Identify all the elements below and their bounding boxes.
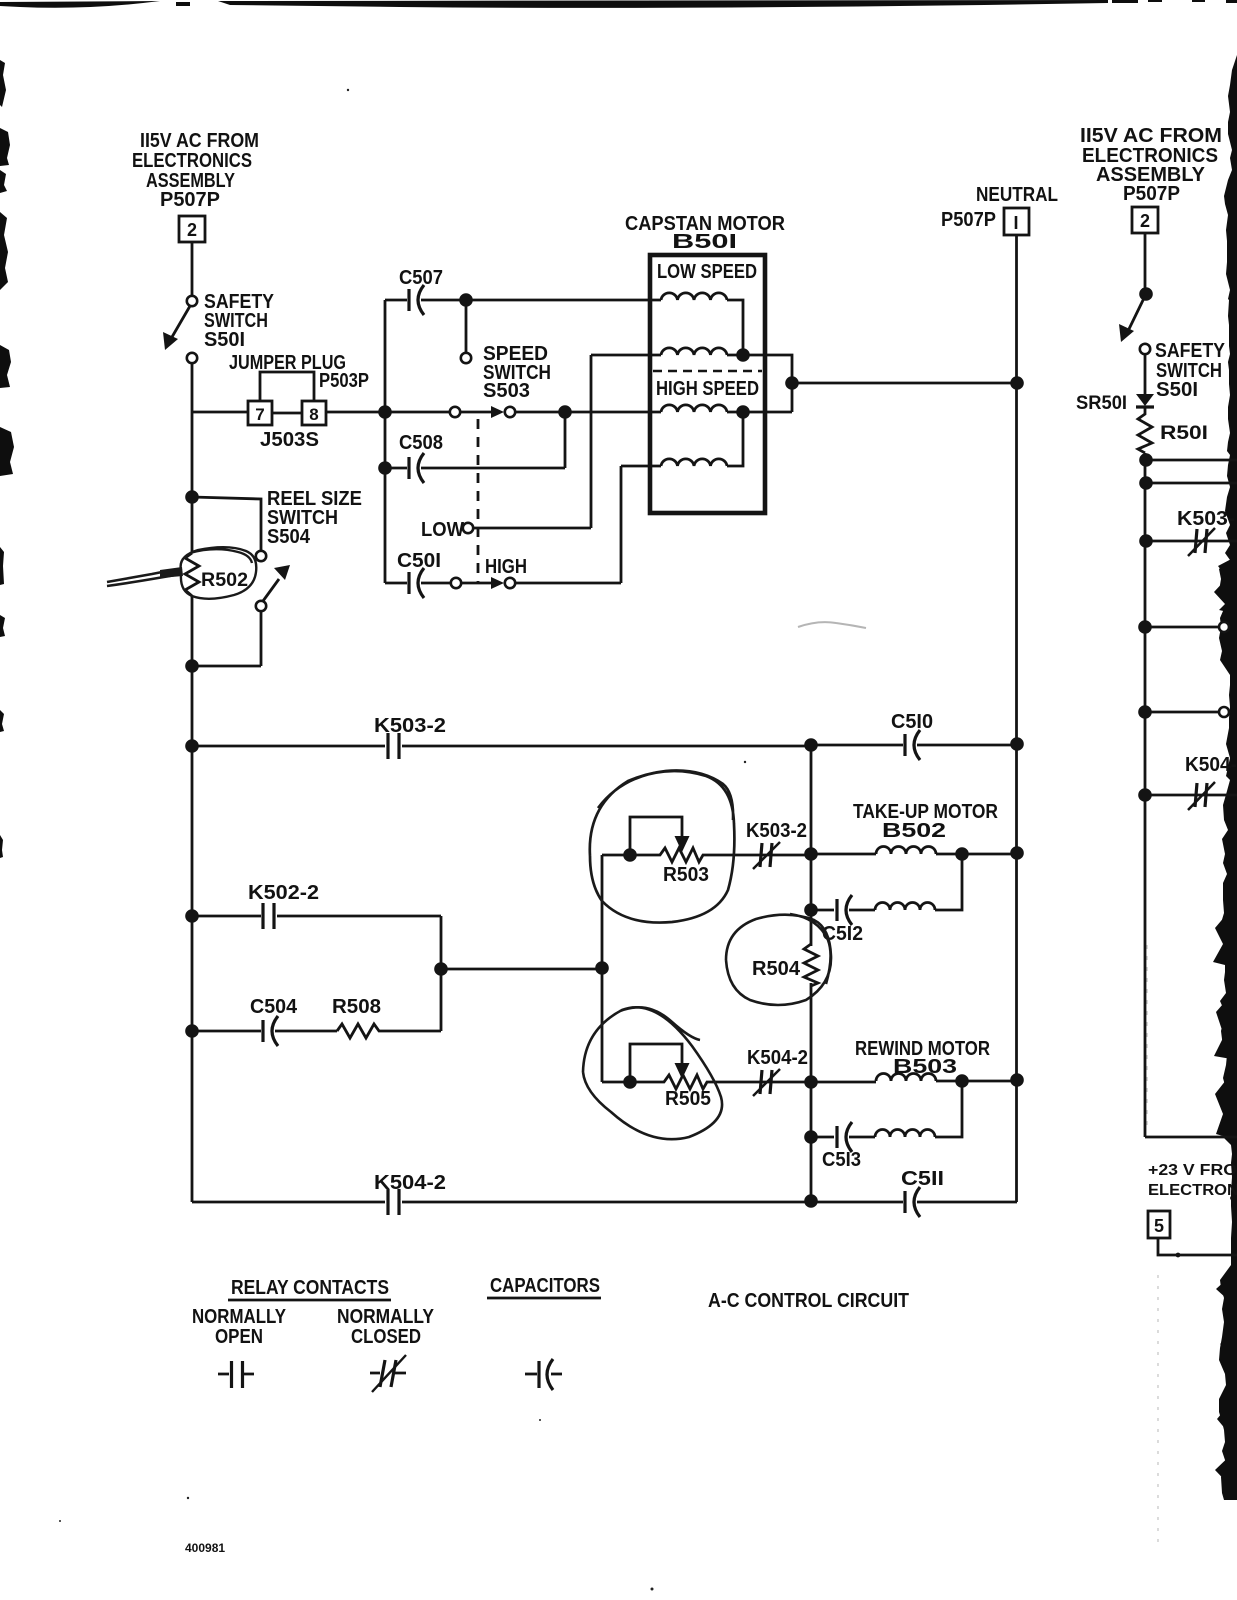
svg-text:R503: R503	[663, 864, 709, 886]
resistor R502	[185, 553, 248, 596]
node LOW contact	[421, 355, 661, 541]
svg-text:R50I: R50I	[1160, 423, 1208, 444]
node: K502-2 row left	[185, 909, 199, 923]
node: K502-2/C504 junction	[434, 962, 448, 976]
switch contact right 2	[1138, 705, 1152, 719]
svg-text:RELAY CONTACTS: RELAY CONTACTS	[231, 1277, 389, 1299]
svg-text:K503-: K503-	[1177, 508, 1235, 530]
scan artifact: faint pencil smudge	[798, 622, 866, 628]
svg-text:II5V AC FROM: II5V AC FROM	[140, 130, 259, 152]
potentiometer R505	[623, 1044, 808, 1110]
jumper plug P503P J503S	[229, 352, 369, 451]
capacitor C512	[811, 854, 962, 945]
resistor R501	[1138, 407, 1208, 453]
svg-text:P507P: P507P	[160, 189, 220, 211]
svg-text:LOW SPEED: LOW SPEED	[657, 261, 757, 283]
relay contact K503- (right, normally closed)	[1139, 508, 1237, 556]
take-up motor B502	[811, 801, 1017, 854]
svg-text:ELECTRONICS: ELECTRONICS	[132, 150, 252, 172]
svg-text:S504: S504	[267, 526, 311, 548]
svg-text:K503-2: K503-2	[746, 820, 807, 842]
node: safety switch pivot	[1139, 287, 1153, 301]
svg-text:HIGH SPEED: HIGH SPEED	[656, 378, 759, 400]
scan artifact: left edge blobs	[0, 60, 14, 858]
node: C510 right on neutral bus	[1010, 737, 1024, 751]
wire: main row to jumper and speed switch	[192, 412, 450, 413]
svg-text:400981: 400981	[185, 1541, 225, 1555]
svg-text:HIGH: HIGH	[485, 556, 527, 578]
scan artifact: right edge strip	[1213, 55, 1237, 1500]
winding 1 (low speed)	[661, 293, 727, 300]
svg-text:R505: R505	[665, 1088, 711, 1110]
wire: speed switch to motor high-speed winding	[515, 411, 661, 414]
relay contact K504-2 (normally closed, motor branch)	[747, 1047, 808, 1096]
legend: CAPACITORS	[487, 1275, 601, 1298]
svg-text:K504-2: K504-2	[747, 1047, 808, 1069]
left bus wire	[191, 412, 194, 553]
svg-text:C5I3: C5I3	[822, 1149, 861, 1171]
node: winding junction upper	[736, 348, 750, 362]
node: B502 right junction	[955, 847, 969, 861]
capacitor C501	[385, 550, 451, 598]
svg-text:C504: C504	[250, 996, 298, 1018]
wire: C507 junction to capstan LOW SPEED winding 1	[466, 299, 661, 302]
wire: branch vertical C507/C508/C501	[384, 300, 387, 583]
svg-text:ELECTRON: ELECTRON	[1148, 1182, 1237, 1199]
node: B502 on neutral bus	[1010, 846, 1024, 860]
hand-drawn loop around R505	[583, 1007, 722, 1139]
capacitor C511	[901, 1168, 1017, 1217]
node: C504 row left	[185, 1024, 199, 1038]
svg-text:S50I: S50I	[1156, 379, 1198, 401]
wire: S503 mechanical link (dashed)	[477, 419, 480, 583]
svg-text:C5II: C5II	[901, 1168, 944, 1190]
svg-text:P507P: P507P	[941, 209, 996, 231]
svg-text:C5I0: C5I0	[891, 711, 933, 733]
svg-text:CAPACITORS: CAPACITORS	[490, 1275, 600, 1297]
legend: RELAY CONTACTS	[192, 1277, 435, 1348]
node: B503 right junction	[955, 1074, 969, 1088]
capacitor C508	[385, 412, 565, 483]
svg-text:K502-2: K502-2	[248, 882, 319, 904]
svg-text:OPEN: OPEN	[215, 1326, 263, 1348]
node: junction main row / C507-C508 branch	[378, 405, 392, 419]
svg-text:S50I: S50I	[204, 329, 245, 351]
wire: pin2 to safety switch	[191, 242, 194, 296]
svg-text:B502: B502	[882, 820, 946, 842]
svg-text:R502: R502	[201, 570, 248, 591]
wire: pots branch vertical	[601, 855, 604, 1082]
node: K503-2 row left	[185, 739, 199, 753]
svg-text:5: 5	[1154, 1216, 1164, 1236]
winding 2 (low speed)	[661, 348, 727, 355]
svg-text:K504-2: K504-2	[374, 1172, 446, 1194]
reel size switch S504	[192, 488, 362, 666]
node: C512 row	[804, 903, 818, 917]
scan artifact: top torn edge	[0, 0, 1237, 8]
connector pin 1 (P507P neutral)	[941, 208, 1029, 235]
node: K503-2 row / central vertical	[804, 738, 818, 752]
hand-drawn loop around R504	[726, 914, 831, 1005]
node: take-up motor row / central vertical	[804, 847, 818, 861]
wire: HIGH contact to winding 4	[515, 466, 661, 583]
capacitor C510	[811, 711, 1017, 760]
speed switch S503 upper throw contact	[465, 306, 468, 353]
svg-text:P503P: P503P	[319, 370, 369, 392]
svg-text:+23 V FRO: +23 V FRO	[1148, 1162, 1237, 1179]
hand-drawn loop around R503	[590, 771, 735, 923]
svg-text:J503S: J503S	[260, 429, 319, 451]
connector pin 2 (right P507P)	[1132, 207, 1158, 233]
node: rewind motor row / central vertical	[804, 1075, 818, 1089]
svg-text:2: 2	[187, 220, 197, 240]
capacitor C513	[811, 1081, 962, 1171]
svg-text:SR50I: SR50I	[1076, 393, 1127, 414]
svg-text:I: I	[1013, 213, 1018, 233]
scan artifact: fold crease lines	[1146, 945, 1148, 1132]
svg-text:8: 8	[309, 405, 318, 424]
svg-text:R508: R508	[332, 996, 381, 1018]
capstan motor B501	[625, 213, 785, 513]
hand-drawn loop around R502	[181, 547, 257, 599]
node: reel size switch upper tap	[185, 490, 199, 504]
safety switch S501 (left)	[163, 291, 275, 363]
switch contact right 1	[1138, 620, 1152, 634]
node: junction C508 left	[378, 461, 392, 475]
rewind motor B503	[811, 1038, 1017, 1082]
svg-text:B50I: B50I	[672, 231, 737, 253]
node: B503 on neutral bus	[1010, 1073, 1024, 1087]
legend symbol: capacitor	[525, 1359, 562, 1390]
svg-text:P507P: P507P	[1123, 182, 1180, 205]
relay contact K504-2 (normally open, bottom)	[374, 1172, 903, 1215]
svg-text:C50I: C50I	[397, 550, 441, 572]
hand-drawn pointer line to R502	[107, 569, 180, 582]
bottom row wire	[192, 1201, 385, 1204]
svg-text:C508: C508	[399, 432, 443, 454]
node: neutral tap	[1010, 376, 1024, 390]
node: reel size switch lower tap	[185, 659, 199, 673]
node: C513 row	[804, 1130, 818, 1144]
relay contact K502-2 (normally open)	[192, 882, 441, 1031]
svg-text:A-C CONTROL CIRCUIT: A-C CONTROL CIRCUIT	[708, 1290, 909, 1312]
svg-text:2: 2	[1140, 211, 1150, 231]
svg-text:S503: S503	[483, 380, 530, 402]
winding 3 (high speed)	[661, 405, 727, 412]
svg-text:NORMALLY: NORMALLY	[337, 1306, 435, 1328]
relay contact K503-2 (normally closed, motor branch)	[746, 820, 807, 869]
node: 115V AC FROM ELECTRONICS ASSEMBLY P507P (left)	[132, 130, 259, 211]
svg-text:NEUTRAL: NEUTRAL	[976, 184, 1058, 206]
resistor R504	[752, 944, 818, 986]
relay contact K504- (right, normally closed)	[1138, 754, 1237, 810]
svg-text:K504-: K504-	[1185, 754, 1237, 776]
connector pin 2 (left P507P)	[179, 216, 205, 242]
svg-text:K503-2: K503-2	[374, 715, 446, 737]
capacitor C507	[385, 267, 461, 315]
safety switch S501 (right)	[1119, 294, 1226, 401]
node: motor common	[785, 376, 799, 390]
scan specks	[59, 89, 746, 1591]
relay contact K503-2 (normally open)	[192, 715, 808, 759]
svg-text:R504: R504	[752, 958, 801, 980]
svg-text:LOW: LOW	[421, 519, 464, 541]
connector pin 5	[1148, 1211, 1170, 1238]
diode SR501	[1076, 354, 1154, 414]
node / wire: right tap 1	[1139, 453, 1153, 467]
resistor R508	[332, 996, 441, 1038]
wire: S501 to main bus	[191, 362, 194, 412]
svg-text:CLOSED: CLOSED	[351, 1326, 421, 1348]
speed switch S503	[450, 343, 551, 418]
winding 4 (high speed)	[661, 459, 727, 466]
wire: motor common to neutral bus	[792, 382, 1017, 385]
wire: central vertical	[810, 745, 813, 1202]
node: junction C507 / speed switch upper throw	[459, 293, 473, 307]
node: winding junction lower	[736, 405, 750, 419]
capacitor C504	[192, 996, 337, 1046]
wire: pin 5 lead	[1158, 1238, 1237, 1255]
svg-text:NORMALLY: NORMALLY	[192, 1306, 287, 1328]
wire: winding interconnects	[727, 300, 792, 466]
node: bottom row / central vertical	[804, 1194, 818, 1208]
speed switch S503 lower pole HIGH	[451, 556, 527, 589]
wire: junction to pots vertical	[441, 968, 602, 971]
svg-text:7: 7	[255, 405, 264, 424]
potentiometer R503	[623, 817, 808, 886]
svg-text:C507: C507	[399, 267, 443, 289]
node: junction main row / C508	[558, 405, 572, 419]
wire: pin 2 down	[1144, 233, 1147, 294]
node / wire: right tap 2	[1139, 476, 1153, 490]
legend symbol: normally closed contact	[370, 1355, 406, 1392]
node: 115V AC FROM ELECTRONICS ASSEMBLY P507P (right)	[1080, 124, 1222, 205]
wire: right column bus	[1145, 453, 1237, 1137]
svg-text:SAFETY: SAFETY	[1155, 340, 1226, 362]
wire: neutral bus	[1015, 235, 1018, 1202]
legend symbol: normally open contact	[218, 1361, 254, 1388]
